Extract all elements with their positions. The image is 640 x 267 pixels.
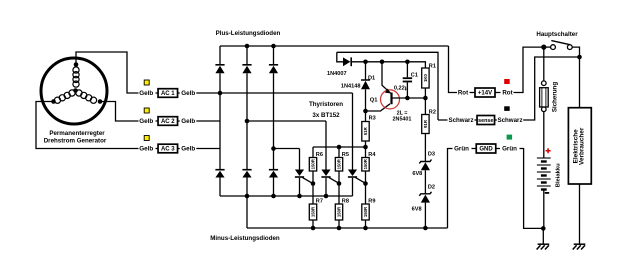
svg-text:R9: R9	[368, 199, 375, 205]
fuse Sicherung body	[540, 88, 549, 107]
wire AC 3 row across bridge	[274, 148, 300, 150]
wire anode drop TH2	[325, 121, 327, 170]
wire R5 top	[338, 147, 340, 158]
wire R4 to gate node	[365, 171, 367, 184]
wire C1 bottom	[406, 82, 408, 98]
generator terminal node left	[51, 99, 56, 104]
wire R3 top	[365, 111, 367, 122]
junction collector node	[363, 109, 368, 114]
wire Q1 base	[392, 97, 426, 99]
gate feed line	[313, 146, 366, 148]
generator star point	[73, 88, 78, 93]
plus power diode D+1	[215, 66, 224, 74]
capacitor C1 0,22u	[403, 77, 412, 79]
wire AC 1 row across bridge	[220, 92, 353, 94]
wire sense to switch output	[523, 57, 579, 120]
generator coil left phase	[69, 90, 75, 96]
svg-text:150R: 150R	[363, 158, 368, 169]
minus power diode D-2	[242, 171, 251, 178]
junction rail B R7	[311, 226, 316, 231]
wire bridge leg 3 lower	[273, 178, 275, 197]
svg-text:150R: 150R	[363, 206, 368, 217]
junction rail A leg 3	[271, 194, 276, 199]
svg-text:R2: R2	[429, 110, 436, 116]
wire phase V to AC 2	[100, 102, 139, 122]
junction plus rail leg 3	[271, 44, 276, 49]
wire anode drop TH1	[299, 149, 301, 170]
wire D1 cathode	[365, 62, 367, 80]
wire cathode TH3 to rail A	[352, 178, 354, 196]
main switch contact left	[551, 45, 556, 50]
svg-text:Gelb: Gelb	[139, 118, 153, 125]
svg-text:R4: R4	[368, 152, 376, 158]
svg-text:51R: 51R	[363, 126, 368, 135]
marker black square sense	[504, 106, 510, 111]
terminal box AC3	[158, 144, 178, 153]
svg-text:150R: 150R	[311, 158, 316, 169]
wire bridge leg 1 middle	[219, 73, 221, 169]
wire R6 top	[312, 147, 314, 158]
svg-text:Minus-Leistungsdioden: Minus-Leistungsdioden	[210, 235, 280, 242]
junction bridge leg 2 phase	[245, 119, 250, 124]
fuse terminal bottom	[542, 107, 547, 112]
wire phase W to AC 3	[36, 102, 139, 149]
terminal marker yellow square AC3	[144, 136, 149, 141]
svg-text:0,22µ: 0,22µ	[394, 86, 408, 92]
junction gate feed R4	[363, 145, 368, 150]
wire C1 top	[406, 62, 408, 78]
wire plus rail to Rot row	[449, 46, 458, 93]
fuse terminal top	[542, 81, 547, 86]
gate node R6/R7	[311, 181, 316, 186]
wire battery minus down	[543, 190, 545, 229]
wire gate node to R7	[312, 184, 314, 205]
junction rail B R8	[337, 226, 342, 231]
svg-text:AC 2: AC 2	[161, 119, 175, 125]
wire R3 to gate feed	[365, 141, 367, 147]
main switch contact right	[567, 45, 572, 50]
resistor R3 51R	[362, 122, 369, 142]
svg-text:Bleiakku: Bleiakku	[555, 163, 561, 187]
svg-text:1K0: 1K0	[423, 73, 428, 81]
wire GND return to battery minus	[520, 149, 544, 229]
wire switch tap down to fuse	[543, 47, 545, 81]
svg-text:Permanenterregter: Permanenterregter	[49, 130, 105, 137]
svg-text:2N5401: 2N5401	[393, 117, 412, 123]
svg-text:150R: 150R	[337, 206, 342, 217]
svg-text:150R: 150R	[311, 206, 316, 217]
battery plus mark	[546, 148, 551, 153]
wire gate node to R8	[338, 184, 340, 205]
svg-text:Q1: Q1	[370, 98, 379, 104]
wire sense row left segment	[438, 119, 497, 121]
wire cathode TH1 to rail A	[299, 178, 301, 196]
svg-text:6V8: 6V8	[412, 207, 422, 213]
ground symbol battery	[538, 243, 550, 245]
generator terminal node top	[74, 62, 79, 67]
wire rail A to rail B link	[246, 196, 248, 228]
svg-text:AC 1: AC 1	[161, 91, 175, 97]
svg-text:R1: R1	[429, 64, 436, 70]
gate node R5/R8	[337, 181, 342, 186]
plus rail	[220, 45, 449, 47]
electrical consumers box	[568, 108, 591, 184]
svg-text:sense: sense	[478, 118, 493, 124]
wire anode drop TH3	[352, 93, 354, 170]
wire D1 anode to collector node	[365, 89, 367, 111]
wire 1N4007 anode	[337, 52, 343, 62]
resistor R9 150R	[362, 204, 369, 220]
svg-text:Gelb: Gelb	[181, 146, 195, 153]
wire bridge leg 3 middle	[273, 73, 275, 169]
junction base C1	[405, 96, 410, 101]
terminal box AC1	[158, 89, 178, 98]
diode 1N4007	[343, 57, 350, 66]
ground symbol consumers	[574, 243, 586, 245]
wire consumers to ground	[579, 184, 581, 244]
resistor R4 150R	[362, 158, 369, 172]
svg-text:Rot: Rot	[502, 90, 512, 97]
generator coil right phase	[76, 90, 82, 96]
resistor R6 150R	[309, 158, 316, 172]
marker green square GND	[507, 135, 512, 140]
wire AC 2 row across bridge	[247, 120, 326, 122]
svg-text:Gelb: Gelb	[181, 118, 195, 125]
svg-text:D2: D2	[428, 185, 435, 191]
wire cathode TH2 to rail A	[325, 178, 327, 196]
svg-text:Thyristoren: Thyristoren	[309, 101, 343, 108]
wire bridge leg 2 lower	[246, 178, 248, 197]
internal supply line	[351, 62, 425, 68]
svg-text:D1: D1	[368, 75, 375, 81]
generator terminal node right	[98, 99, 103, 104]
minus rail B	[247, 227, 448, 229]
wire collector of Q1	[366, 104, 391, 111]
wire switch output	[572, 47, 579, 108]
wire R2 to D3	[424, 134, 426, 162]
svg-text:+14V: +14V	[478, 91, 492, 97]
gate node R4/R9	[363, 181, 368, 186]
transistor Q1 body	[390, 93, 392, 105]
wire bridge leg 1 lower	[219, 178, 221, 197]
wire gate node to R9	[365, 184, 367, 205]
svg-text:GND: GND	[479, 147, 493, 153]
marker red square +14V	[504, 79, 510, 84]
resistor R1 1K0	[422, 68, 429, 88]
thyristor TH1 BT152	[295, 170, 304, 177]
junction bridge leg 3 phase	[271, 146, 276, 151]
svg-text:Verbraucher: Verbraucher	[579, 127, 586, 165]
svg-text:Grün: Grün	[454, 146, 469, 153]
minus power diode D-1	[215, 171, 224, 178]
wire D3 to D2	[424, 170, 426, 194]
junction battery minus ground	[541, 226, 546, 231]
junction rail B R9	[363, 226, 368, 231]
svg-text:Gelb: Gelb	[139, 146, 153, 153]
svg-text:91R: 91R	[423, 119, 428, 128]
wire bridge leg 3 upper	[273, 46, 275, 64]
wire AC2 into bridge	[156, 120, 221, 122]
junction supply C1	[405, 60, 410, 65]
wire bridge leg 1 upper	[219, 46, 221, 64]
svg-text:R6: R6	[316, 152, 323, 158]
junction supply D1	[363, 60, 368, 65]
minus power diode D-3	[269, 171, 278, 178]
junction rail A TH2	[324, 194, 329, 199]
wire R7 to rail B	[312, 220, 314, 228]
battery minus mark	[545, 192, 549, 194]
svg-text:Rot: Rot	[458, 90, 468, 97]
junction gate feed R5	[337, 145, 342, 150]
junction supply Q1 emitter	[380, 60, 385, 65]
wire R6 to gate node	[312, 171, 314, 184]
zener diode D2 6V8	[419, 192, 431, 196]
svg-text:Schwarz: Schwarz	[497, 117, 522, 124]
svg-text:Schwarz: Schwarz	[448, 117, 473, 124]
wire R9 to rail B	[365, 220, 367, 228]
wire AC1 into bridge	[156, 92, 221, 94]
junction rail A TH1	[297, 194, 302, 199]
wire to ground left	[542, 228, 544, 244]
wire bridge leg 2 middle	[246, 73, 248, 169]
svg-text:Plus-Leistungsdioden: Plus-Leistungsdioden	[216, 30, 281, 37]
svg-text:Grün: Grün	[502, 146, 517, 153]
battery Bleiakku cells	[537, 157, 551, 159]
resistor R8 150R	[335, 204, 342, 220]
svg-text:R5: R5	[342, 152, 349, 158]
svg-text:R8: R8	[342, 199, 349, 205]
plus power diode D+2	[242, 66, 251, 74]
junction plus rail leg 2	[245, 44, 250, 49]
generator coil top phase	[73, 67, 79, 73]
svg-text:D3: D3	[428, 152, 435, 158]
wire R1 to divider node	[424, 88, 426, 98]
svg-text:C1: C1	[411, 72, 418, 78]
wire phase U to AC 1	[76, 52, 139, 93]
minus rail A	[220, 195, 353, 197]
svg-text:1N4007: 1N4007	[327, 71, 347, 77]
svg-text:Gelb: Gelb	[139, 90, 153, 97]
svg-text:Gelb: Gelb	[181, 90, 195, 97]
terminal box GND	[476, 144, 496, 153]
svg-text:1N4148: 1N4148	[341, 84, 361, 90]
generator stator circle	[41, 58, 107, 124]
junction base divider	[423, 96, 428, 101]
wire Q1 emitter	[382, 62, 391, 94]
thyristor TH2 BT152	[321, 170, 330, 177]
svg-text:AC 3: AC 3	[161, 147, 175, 153]
junction switch battery tap	[541, 45, 546, 50]
main switch lever	[551, 41, 569, 45]
svg-text:6V8: 6V8	[412, 171, 422, 177]
transistor Q1 2N5401 highlight circle	[381, 90, 400, 109]
wire sense feed upper	[337, 52, 438, 120]
wire D2 to rail B	[424, 203, 426, 228]
wire fuse to battery	[543, 112, 545, 158]
wire Rot left segment	[470, 92, 501, 94]
terminal box +14V	[475, 88, 495, 97]
terminal marker yellow square AC1	[144, 80, 149, 85]
junction switch output sense	[577, 55, 582, 60]
wire R8 to rail B	[338, 220, 340, 228]
resistor R2 91R	[422, 115, 429, 134]
svg-text:Hauptschalter: Hauptschalter	[536, 31, 578, 38]
svg-text:R3: R3	[369, 116, 376, 122]
svg-text:150R: 150R	[337, 158, 342, 169]
Q1 emitter arrow	[385, 89, 391, 94]
wire R5 to gate node	[338, 171, 340, 184]
resistor R5 150R	[335, 158, 342, 172]
svg-text:Drehstrom Generator: Drehstrom Generator	[44, 138, 107, 145]
junction bridge leg 1 phase	[218, 91, 223, 96]
wire bridge leg 2 upper	[246, 46, 248, 64]
thyristor TH3 BT152	[348, 170, 357, 177]
junction rail B zener chain	[423, 226, 428, 231]
wire divider node to R2	[424, 98, 426, 115]
terminal box sense	[477, 116, 495, 125]
plus power diode D+3	[269, 66, 278, 74]
svg-text:Sicherung: Sicherung	[552, 82, 559, 112]
terminal marker yellow square AC2	[144, 108, 149, 113]
svg-text:R7: R7	[316, 199, 323, 205]
diode D1 1N4148	[361, 79, 370, 81]
wire switch input	[544, 46, 551, 48]
terminal box AC2	[158, 117, 178, 126]
wire AC3 into bridge	[156, 148, 221, 150]
junction rail A leg 2	[245, 194, 250, 199]
wire rail B up to GND row	[448, 149, 453, 229]
wire Rot to main switch	[514, 47, 542, 92]
zener diode D3 6V8	[419, 160, 431, 164]
wire GND row segments	[472, 148, 501, 150]
svg-text:3x BT152: 3x BT152	[312, 112, 340, 119]
wire R4 top	[365, 147, 367, 158]
resistor R7 150R	[309, 204, 316, 220]
